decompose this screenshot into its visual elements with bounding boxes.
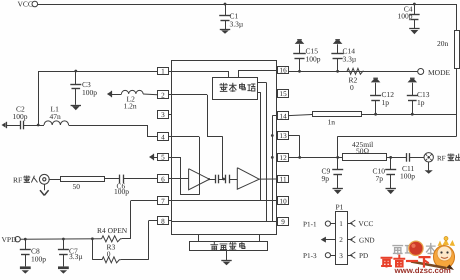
svg-text:5: 5 xyxy=(161,154,165,162)
svg-text:50Ω: 50Ω xyxy=(356,147,370,156)
svg-text:1p: 1p xyxy=(382,98,390,107)
svg-text:100p: 100p xyxy=(306,54,321,63)
svg-text:9p: 9p xyxy=(322,174,330,183)
svg-text:3: 3 xyxy=(339,252,343,260)
svg-text:RF: RF xyxy=(13,175,22,184)
svg-text:6: 6 xyxy=(161,176,165,184)
svg-text:P1-1: P1-1 xyxy=(303,220,317,228)
svg-text:47n: 47n xyxy=(50,112,62,121)
svg-text:16: 16 xyxy=(280,67,288,75)
svg-text:1.2n: 1.2n xyxy=(124,102,137,111)
svg-text:3: 3 xyxy=(161,111,165,119)
svg-text:0: 0 xyxy=(350,83,354,92)
svg-text:VCC: VCC xyxy=(359,220,374,228)
svg-text:13: 13 xyxy=(280,132,288,140)
svg-text:3.3µ: 3.3µ xyxy=(230,19,244,28)
svg-text:100p: 100p xyxy=(13,112,28,121)
svg-text:20n: 20n xyxy=(437,39,449,48)
svg-text:1n: 1n xyxy=(328,118,336,127)
svg-text:4: 4 xyxy=(161,134,165,142)
svg-text:8: 8 xyxy=(161,218,165,226)
svg-text:100p: 100p xyxy=(31,254,46,263)
svg-text:100p: 100p xyxy=(82,88,97,97)
svg-text:12: 12 xyxy=(280,154,288,162)
svg-text:3.3µ: 3.3µ xyxy=(69,252,83,261)
svg-text:PD: PD xyxy=(359,252,368,260)
svg-text:MODE: MODE xyxy=(428,68,451,77)
svg-text:1: 1 xyxy=(161,68,165,76)
svg-text:3.3µ: 3.3µ xyxy=(343,54,357,63)
svg-text:9: 9 xyxy=(281,218,285,226)
svg-text:P1-3: P1-3 xyxy=(303,252,317,260)
svg-text:1p: 1p xyxy=(417,98,425,107)
svg-text:11: 11 xyxy=(280,176,287,184)
svg-text:15: 15 xyxy=(280,90,288,98)
svg-text:2: 2 xyxy=(339,236,343,244)
svg-text:10: 10 xyxy=(280,198,288,206)
svg-text:100p: 100p xyxy=(114,187,129,196)
svg-text:100p: 100p xyxy=(400,172,415,181)
svg-text:1: 1 xyxy=(339,220,343,228)
svg-text:R4 OPEN: R4 OPEN xyxy=(97,226,128,235)
svg-text:VCC: VCC xyxy=(18,0,33,9)
svg-text:2: 2 xyxy=(161,91,165,99)
svg-text:50: 50 xyxy=(73,182,81,191)
svg-text:100p: 100p xyxy=(398,12,413,21)
svg-text:www.dzsc.com: www.dzsc.com xyxy=(394,266,451,275)
svg-text:14: 14 xyxy=(280,112,288,120)
svg-text:P1: P1 xyxy=(336,202,344,211)
svg-text:7p: 7p xyxy=(376,174,384,183)
svg-text:RF: RF xyxy=(437,154,446,162)
svg-text:0: 0 xyxy=(107,249,111,258)
svg-text:7: 7 xyxy=(161,197,165,205)
svg-text:GND: GND xyxy=(359,236,375,244)
